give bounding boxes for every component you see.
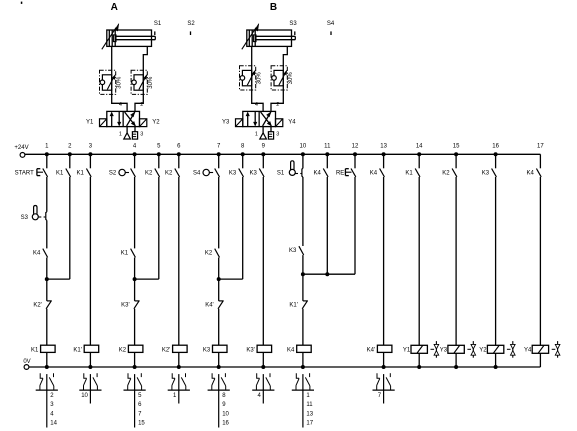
- NC contact K2': [46, 301, 52, 309]
- contact K4 (rung 17): [536, 169, 541, 177]
- wire rung 17 upper: [539, 154, 541, 168]
- svg-text:+24V: +24V: [14, 145, 28, 151]
- wire rung 10 above coil K4: [302, 309, 304, 345]
- svg-text:3: 3: [140, 132, 143, 138]
- label coil K1': [73, 347, 81, 353]
- solenoid coil Y2: [487, 345, 503, 353]
- solenoid coil Y1: [411, 345, 427, 353]
- relay coil K4: [297, 345, 312, 352]
- wire rung 8 upper: [242, 154, 244, 168]
- contact cross-references of relay K3: [222, 393, 229, 427]
- contact K2 (rung 7 middle): [215, 249, 220, 258]
- wire rung 10 between junction and NC contact: [302, 255, 304, 301]
- contact K2 (rung 5): [155, 169, 160, 177]
- rung number 13: [380, 143, 387, 149]
- wire rung 16 above coil Y2: [495, 177, 497, 345]
- wire rung 1 above contact K4: [46, 220, 48, 248]
- wire rung 7 coil K3 to 0V: [218, 352, 220, 367]
- svg-text:K3': K3': [246, 347, 254, 353]
- solenoid label Y1: [86, 120, 94, 126]
- junction top rail rung 7: [217, 152, 221, 156]
- wire rung 7 upper: [218, 154, 220, 168]
- svg-text:S4: S4: [327, 21, 335, 27]
- junction bottom rail rung 3: [88, 365, 92, 369]
- svg-text:0V: 0V: [23, 359, 30, 365]
- label START: [15, 170, 34, 176]
- label coil Y2: [479, 348, 487, 354]
- relay coil K3': [257, 345, 272, 352]
- svg-text:S3: S3: [21, 215, 29, 221]
- svg-text:K1: K1: [31, 347, 39, 353]
- relay coil K2': [173, 345, 188, 352]
- junction top rail rung 8: [241, 152, 245, 156]
- svg-text:17: 17: [306, 421, 313, 427]
- svg-text:K4': K4': [367, 347, 375, 353]
- 0V label: [23, 359, 30, 365]
- label K1': [289, 303, 297, 309]
- junction bottom rail rung 9: [261, 365, 265, 369]
- port label 2 (Y1/Y2): [140, 102, 143, 108]
- sensor mark S1: [154, 31, 156, 35]
- wire rung 13 above coil K4': [383, 177, 385, 345]
- contact K3 (rung 9): [259, 169, 264, 177]
- label S1: [277, 171, 285, 177]
- wire rung 1 between START and S3: [46, 177, 48, 212]
- svg-text:Y4: Y4: [524, 348, 532, 354]
- wire rung 1 coil K1 to 0V: [46, 352, 48, 367]
- junction dot rung 4 at 279.1: [133, 277, 137, 281]
- contact K4 (rung 11): [323, 169, 328, 177]
- svg-text:4: 4: [255, 102, 258, 108]
- label coil K3: [203, 347, 211, 353]
- junction top rail rung 6: [177, 152, 181, 156]
- junction top rail rung 13: [382, 152, 386, 156]
- wire rung 7 above coil K3: [218, 309, 220, 345]
- svg-text:11: 11: [306, 402, 313, 408]
- sensor S1 contact: [302, 168, 303, 177]
- flow control valve B right: [271, 66, 294, 90]
- svg-text:14: 14: [416, 143, 423, 149]
- svg-text:S4: S4: [193, 171, 201, 177]
- junction top rail rung 12: [353, 152, 357, 156]
- wire rung 9 coil K3' to 0V: [262, 352, 264, 367]
- valve Y1/Y2 body: [100, 111, 147, 126]
- svg-text:K2: K2: [145, 171, 153, 177]
- svg-text:Y3: Y3: [440, 348, 448, 354]
- rung number 8: [241, 143, 245, 149]
- rung number 4: [133, 143, 137, 149]
- contact K3 (rung 10 middle): [299, 246, 304, 255]
- wire junction rung 8 to rung 7: [219, 278, 243, 280]
- rung number 5: [157, 143, 161, 149]
- svg-text:K3: K3: [249, 171, 257, 177]
- sensor mark S4: [330, 31, 332, 35]
- wire rung 13 coil K4' to 0V: [383, 352, 385, 367]
- port label 2 (Y3/Y4): [276, 102, 279, 108]
- sensor mark S3: [294, 31, 296, 35]
- svg-text:K1: K1: [121, 251, 129, 257]
- wire rung 13 upper: [383, 154, 385, 168]
- rung number 6: [177, 143, 181, 149]
- label K1 rung 2: [56, 171, 64, 177]
- svg-text:K2': K2': [33, 303, 41, 309]
- port label 3 (Y3/Y4): [276, 132, 279, 138]
- junction bottom rail rung 7: [217, 365, 221, 369]
- wire rung 3 upper: [89, 154, 91, 168]
- contact mirror of relay K1': [79, 373, 101, 403]
- label coil K4': [367, 347, 375, 353]
- svg-text:K2': K2': [162, 347, 170, 353]
- label K4 rung 17: [527, 171, 535, 177]
- svg-text:K1': K1': [73, 347, 81, 353]
- svg-text:1: 1: [119, 132, 122, 138]
- label K1 rung 14: [405, 171, 413, 177]
- limit switch S4 actuator: [203, 169, 213, 175]
- port label 4 (Y1/Y2): [119, 102, 122, 108]
- label K3 rung 8: [229, 171, 237, 177]
- svg-text:K1: K1: [405, 171, 413, 177]
- contact mirror of relay K2': [168, 373, 190, 403]
- junction bottom rail rung 1: [45, 365, 49, 369]
- rung number 11: [324, 143, 331, 149]
- wire rung 1 above coil K1: [46, 309, 48, 345]
- wire rung 6 upper: [178, 154, 180, 168]
- valve Y3/Y4 port 3 + exhaust silencer: [268, 127, 273, 139]
- contact cross-references of relay K1': [81, 393, 88, 399]
- label K3': [121, 303, 129, 309]
- contact mirror of relay K2: [124, 373, 146, 427]
- wire rung 5 lower: [158, 177, 160, 279]
- wire rung 12 upper: [354, 154, 356, 168]
- contact mirror of relay K3: [208, 373, 230, 427]
- wire rung 3 above coil K1': [89, 177, 91, 345]
- svg-text:K1: K1: [77, 171, 85, 177]
- svg-text:15: 15: [138, 421, 145, 427]
- junction top rail rung 10: [301, 152, 305, 156]
- wire rung 4 between junction and NC contact: [134, 258, 136, 301]
- 0V terminal: [24, 365, 29, 370]
- stray mark top-left: [21, 2, 23, 4]
- +24V supply rail: [25, 153, 541, 155]
- svg-text:12: 12: [352, 143, 359, 149]
- svg-text:14: 14: [50, 421, 57, 427]
- wire rung 15 coil Y3 to 0V: [455, 353, 457, 367]
- svg-text:10: 10: [81, 393, 88, 399]
- label K2 rung 15: [442, 171, 450, 177]
- label K4 rung 11: [313, 171, 321, 177]
- relay coil K2: [128, 345, 143, 352]
- svg-text:30%: 30%: [257, 72, 263, 85]
- pushbutton RE actuator: [345, 169, 351, 176]
- svg-text:START: START: [15, 170, 34, 176]
- wire rung 7 between junction and NC contact: [218, 258, 220, 301]
- wire rung 5 upper: [158, 154, 160, 168]
- svg-text:S1: S1: [277, 171, 285, 177]
- svg-text:K4': K4': [205, 303, 213, 309]
- contact K4 (rung 13): [380, 169, 385, 177]
- svg-text:10: 10: [222, 411, 229, 417]
- valve marker for Y4: [552, 341, 560, 358]
- 0V supply rail: [29, 366, 541, 368]
- wire rung 3 coil K1' to 0V: [89, 352, 91, 367]
- wire rung 16 upper: [495, 154, 497, 168]
- label coil K3': [246, 347, 254, 353]
- junction dot rung 10: [301, 272, 305, 276]
- rung number 9: [262, 143, 266, 149]
- svg-text:4: 4: [119, 102, 122, 108]
- pipe cylinder A left port to valve A port 4: [112, 46, 127, 111]
- junction dot rung 7 at 279.1: [217, 277, 221, 281]
- svg-text:Y2: Y2: [152, 120, 160, 126]
- junction dot rung 11: [325, 272, 329, 276]
- svg-text:K4: K4: [313, 171, 321, 177]
- junction top rail rung 15: [454, 152, 458, 156]
- valve marker for Y1: [431, 341, 439, 358]
- wire rung 14 upper: [418, 154, 420, 168]
- svg-text:30%: 30%: [117, 76, 123, 89]
- svg-text:30%: 30%: [288, 72, 294, 85]
- valve marker for Y2: [507, 341, 515, 358]
- svg-text:K3: K3: [482, 171, 490, 177]
- wire rung 14 coil Y1 to 0V: [418, 353, 420, 367]
- svg-text:16: 16: [492, 143, 499, 149]
- relay coil K1: [41, 345, 56, 352]
- contact cross-references of relay K2': [173, 393, 177, 399]
- cylinder group label B: [270, 2, 277, 13]
- NC contact K1': [302, 301, 308, 309]
- junction top rail rung 3: [88, 152, 92, 156]
- wire rung 11 lower: [326, 177, 328, 274]
- junction top rail rung 2: [68, 152, 72, 156]
- wire rung 6 coil K2' to 0V: [178, 352, 180, 367]
- limit switch S2 NO contact: [131, 169, 136, 177]
- junction bottom rail rung 14: [417, 365, 421, 369]
- valve Y3/Y4 port 1 + pressure source triangle: [260, 127, 267, 139]
- contact mirror of relay K4: [292, 373, 314, 427]
- sensor label S1: [154, 21, 162, 27]
- junction dot rung 1 at 279.1: [45, 277, 49, 281]
- junction bottom rail rung 6: [177, 365, 181, 369]
- contact cross-references of relay K1: [50, 393, 57, 427]
- wire rung 11 upper: [326, 154, 328, 168]
- wire rung 17 coil Y4 to 0V: [539, 353, 541, 367]
- solenoid coil Y4: [532, 345, 548, 353]
- wire rung 4 upper: [134, 154, 136, 168]
- junction bottom rail rung 10: [301, 365, 305, 369]
- sensor label S4: [327, 21, 335, 27]
- junction bottom rail rung 16: [494, 365, 498, 369]
- relay coil K1': [84, 345, 99, 352]
- pipe cylinder A right port to valve A port 2: [135, 46, 147, 111]
- label RE: [336, 170, 344, 176]
- rung number 3: [89, 143, 93, 149]
- rung number 10: [300, 143, 307, 149]
- solenoid label Y2: [152, 120, 160, 126]
- wire rung 6 above coil K2': [178, 177, 180, 345]
- limit switch S4 NO contact: [215, 169, 220, 177]
- sensor S3 actuator: [32, 206, 45, 220]
- +24V terminal: [20, 153, 25, 158]
- wire rung 10 upper: [302, 154, 304, 168]
- svg-text:K1': K1': [289, 303, 297, 309]
- junction top rail rung 4: [133, 152, 137, 156]
- svg-text:3: 3: [276, 132, 279, 138]
- svg-text:1: 1: [255, 132, 258, 138]
- wire rung 4 coil K2 to 0V: [134, 352, 136, 367]
- valve marker for Y3: [467, 341, 475, 358]
- label coil Y4: [524, 348, 532, 354]
- contact K3 (rung 8): [239, 169, 244, 177]
- svg-text:13: 13: [306, 411, 313, 417]
- svg-text:B: B: [270, 2, 277, 13]
- label K4 rung 13: [370, 171, 378, 177]
- wire junction rung 2 to rung 1: [47, 278, 70, 280]
- svg-text:17: 17: [537, 143, 544, 149]
- wire rung 1 between junction and NC contact: [46, 258, 48, 301]
- rung number 16: [492, 143, 499, 149]
- contact K1 (rung 4 middle): [131, 249, 136, 258]
- junction bottom rail rung 13: [382, 365, 386, 369]
- wire rung 1 upper: [46, 154, 48, 168]
- label S2: [109, 171, 117, 177]
- sensor label S3: [289, 21, 297, 27]
- wire rung 15 upper: [455, 154, 457, 168]
- wire rung 4 above contact K1: [134, 177, 136, 248]
- svg-text:K3: K3: [289, 248, 297, 254]
- label coil K1: [31, 347, 39, 353]
- svg-text:11: 11: [324, 143, 331, 149]
- svg-text:S3: S3: [289, 21, 297, 27]
- svg-text:2: 2: [140, 102, 143, 108]
- sensor label S2: [187, 21, 195, 27]
- contact cross-references of relay K3': [257, 393, 261, 399]
- flow control valve A left: [100, 70, 123, 94]
- svg-text:K2: K2: [165, 171, 173, 177]
- svg-text:S1: S1: [154, 21, 162, 27]
- cylinder B: [242, 24, 295, 50]
- wire rung 7 above contact K2: [218, 177, 220, 248]
- valve Y3/Y4 body: [236, 111, 283, 126]
- wire rung 4 above coil K2: [134, 309, 136, 345]
- wire rung 9 above coil K3': [262, 177, 264, 345]
- label K2 rung 5: [145, 171, 153, 177]
- wire junction rungs 10-12: [303, 273, 355, 275]
- pushbutton START NO contact: [43, 169, 48, 177]
- limit switch S2 actuator: [119, 169, 129, 175]
- label coil Y1: [403, 348, 411, 354]
- wire rung 16 coil Y2 to 0V: [495, 353, 497, 367]
- contact mirror of relay K4': [373, 373, 395, 403]
- contact K2 (rung 15): [452, 169, 457, 177]
- pipe cylinder B right port to valve B port 2: [271, 46, 287, 111]
- port label 1 (Y3/Y4): [255, 132, 258, 138]
- rung number 7: [217, 143, 221, 149]
- valve Y1/Y2 port 3 + exhaust silencer: [132, 127, 137, 139]
- cylinder A: [102, 24, 156, 50]
- contact cross-references of relay K4: [306, 393, 313, 427]
- svg-text:13: 13: [380, 143, 387, 149]
- label coil K2: [119, 347, 127, 353]
- svg-text:K2: K2: [205, 251, 213, 257]
- sensor mark S2: [190, 31, 192, 35]
- pushbutton RE NO contact: [351, 169, 356, 177]
- valve Y1/Y2 port 1 + pressure source triangle: [124, 127, 131, 139]
- contact K1 (rung 2): [66, 169, 71, 177]
- port label 3 (Y1/Y2): [140, 132, 143, 138]
- svg-text:K4: K4: [370, 171, 378, 177]
- wire rung 17 above coil Y4: [539, 177, 541, 345]
- relay coil K4': [377, 345, 392, 352]
- label K3 rung 9: [249, 171, 257, 177]
- contact K1 (rung 14): [415, 169, 420, 177]
- svg-text:K2: K2: [442, 171, 450, 177]
- sensor S3 contact: [46, 212, 47, 221]
- wire rung 8 lower: [242, 177, 244, 279]
- junction bottom rail rung 4: [133, 365, 137, 369]
- label S3: [21, 215, 29, 221]
- label coil K2': [162, 347, 170, 353]
- svg-text:15: 15: [453, 143, 460, 149]
- contact K2 (rung 6): [175, 169, 180, 177]
- rung number 14: [416, 143, 423, 149]
- NC contact K3': [134, 301, 140, 309]
- svg-text:Y1: Y1: [403, 348, 411, 354]
- flow control valve B left: [240, 66, 263, 90]
- contact cross-references of relay K2: [138, 393, 145, 427]
- svg-text:16: 16: [222, 421, 229, 427]
- label K1 middle rung 4: [121, 251, 129, 257]
- svg-text:Y1: Y1: [86, 120, 94, 126]
- svg-text:10: 10: [300, 143, 307, 149]
- label K1 rung 3: [77, 171, 85, 177]
- label coil Y3: [440, 348, 448, 354]
- wire rung 2 lower: [69, 177, 71, 279]
- contact K4 (rung 1 middle): [43, 249, 48, 258]
- svg-text:K4: K4: [527, 171, 535, 177]
- junction bottom rail rung 15: [454, 365, 458, 369]
- contact mirror of relay K3': [252, 373, 274, 403]
- svg-text:2: 2: [276, 102, 279, 108]
- pipe cylinder B left port to valve B port 4: [252, 46, 263, 111]
- rung number 17: [537, 143, 544, 149]
- svg-text:A: A: [111, 2, 118, 13]
- port label 1 (Y1/Y2): [119, 132, 122, 138]
- label coil K4: [287, 347, 295, 353]
- relay coil K3: [213, 345, 228, 352]
- NC contact K4': [218, 301, 224, 309]
- rung number 2: [68, 143, 72, 149]
- junction top rail rung 14: [417, 152, 421, 156]
- label K3 rung 16: [482, 171, 490, 177]
- +24V label: [14, 145, 28, 151]
- port label 4 (Y3/Y4): [255, 102, 258, 108]
- cylinder group label A: [111, 2, 118, 13]
- junction top rail rung 16: [494, 152, 498, 156]
- svg-text:K2: K2: [119, 347, 127, 353]
- svg-text:K3: K3: [229, 171, 237, 177]
- flow control valve A right: [131, 70, 154, 94]
- label K2': [33, 303, 41, 309]
- wire rung 15 above coil Y3: [455, 177, 457, 345]
- solenoid coil Y3: [448, 345, 464, 353]
- svg-text:S2: S2: [187, 21, 195, 27]
- svg-text:K3': K3': [121, 303, 129, 309]
- label K4 middle rung 1: [33, 251, 41, 257]
- wire junction rung 5 to rung 4: [135, 278, 159, 280]
- junction top rail rung 1: [45, 152, 49, 156]
- wire rung 12 lower: [354, 177, 356, 274]
- svg-text:K3: K3: [203, 347, 211, 353]
